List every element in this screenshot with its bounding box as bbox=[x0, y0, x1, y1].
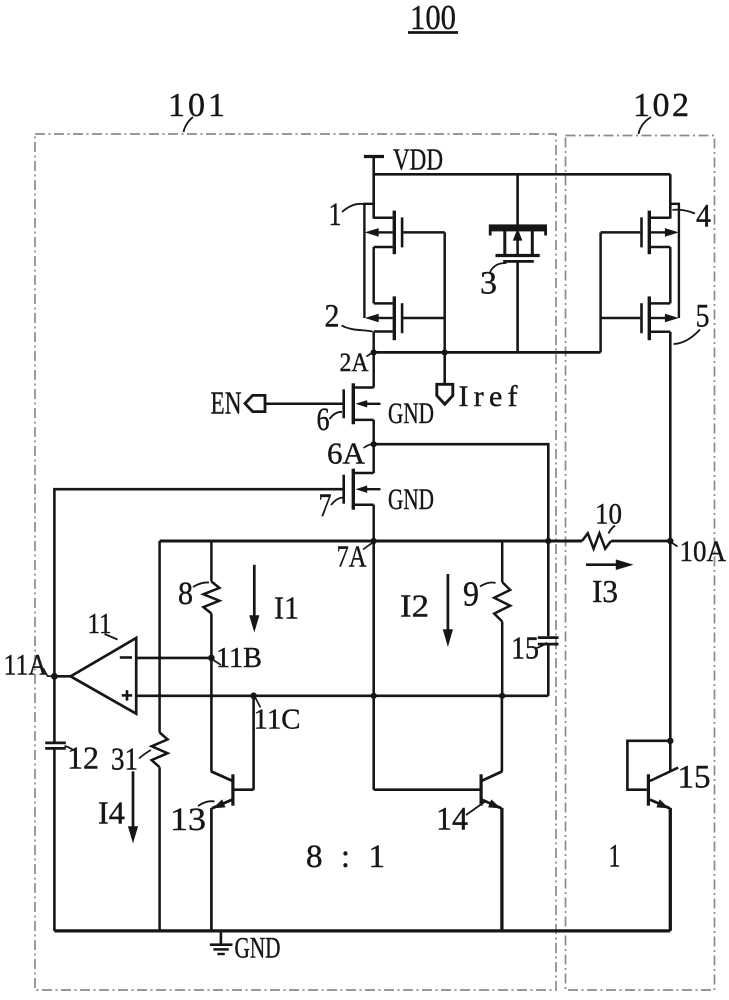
svg-text:8 : 1: 8 : 1 bbox=[306, 839, 385, 875]
wire VDD right drop bbox=[669, 174, 672, 218]
I1 current arrow bbox=[249, 565, 299, 633]
svg-text:13: 13 bbox=[170, 802, 206, 838]
wire VDD rail bbox=[374, 173, 671, 176]
svg-text:11B: 11B bbox=[216, 642, 262, 674]
svg-text:VDD: VDD bbox=[393, 142, 443, 177]
svg-text:12: 12 bbox=[67, 740, 99, 776]
wire left column to cap 12 bbox=[53, 676, 56, 742]
svg-text:6: 6 bbox=[317, 402, 330, 438]
svg-text:11C: 11C bbox=[254, 704, 301, 736]
Iref terminal bbox=[437, 352, 518, 413]
svg-text:3: 3 bbox=[480, 266, 497, 302]
capacitor 15 bbox=[538, 541, 559, 696]
wire plus input rail bbox=[136, 694, 548, 697]
transistor 1 (PMOS) bbox=[365, 211, 445, 255]
label 14 bbox=[436, 801, 487, 838]
EN terminal bbox=[211, 385, 266, 421]
label 5 bbox=[674, 299, 710, 345]
crossing dot plus row left bbox=[158, 694, 162, 698]
resistor 9 bbox=[494, 541, 510, 696]
svg-text:GND: GND bbox=[235, 932, 281, 965]
wire drain1-source2 bbox=[372, 247, 375, 303]
svg-text:101: 101 bbox=[168, 87, 225, 124]
I4 current arrow bbox=[98, 771, 138, 843]
label 1 bbox=[329, 197, 366, 233]
op-amp 11 bbox=[71, 638, 137, 714]
node 11A bbox=[4, 649, 58, 682]
wire I4 branch column bbox=[158, 541, 161, 733]
junction dot I2 branch on plus rail bbox=[371, 693, 377, 699]
node 10A bbox=[667, 535, 726, 568]
transistor 5 (PMOS mirrored) bbox=[601, 296, 679, 340]
label 101 bbox=[168, 87, 225, 132]
svg-text:I4: I4 bbox=[98, 795, 125, 831]
svg-text:7: 7 bbox=[319, 488, 332, 524]
transistor 2 (PMOS) bbox=[365, 296, 445, 340]
wire drain2 to 2A bbox=[372, 332, 375, 353]
wire drain4-source5 bbox=[669, 247, 672, 303]
box 102 (dash-dot border) bbox=[566, 136, 715, 991]
svg-text:GND: GND bbox=[388, 483, 434, 516]
wire bottom ground rail bbox=[54, 929, 670, 932]
label 3 bbox=[480, 263, 507, 302]
transistor Q15 (BJT diode-connected) bbox=[627, 741, 678, 931]
title 100 bbox=[408, 0, 458, 37]
ground symbol bbox=[210, 931, 281, 965]
svg-text:EN: EN bbox=[211, 385, 242, 421]
I2 current arrow bbox=[400, 574, 453, 647]
node 11B bbox=[208, 642, 262, 674]
wire 6A loop right bbox=[374, 444, 549, 541]
wire left column to bottom rail bbox=[53, 748, 56, 931]
resistor 31 bbox=[152, 733, 168, 931]
svg-text:I1: I1 bbox=[274, 590, 299, 626]
label 31 bbox=[111, 741, 151, 777]
transistor 4 (PMOS mirrored) bbox=[601, 211, 679, 255]
junction dot R9 branch on plus rail bbox=[499, 693, 505, 699]
junction dot gate link bbox=[442, 349, 448, 355]
crossing dot minus row bbox=[158, 656, 162, 660]
svg-text:6A: 6A bbox=[327, 436, 366, 471]
svg-text:1: 1 bbox=[609, 839, 621, 875]
node 2A bbox=[340, 348, 377, 377]
svg-text:10A: 10A bbox=[680, 535, 727, 568]
svg-text:2A: 2A bbox=[340, 348, 369, 377]
label 2 bbox=[325, 299, 373, 335]
transistor Q14 (BJT) bbox=[374, 696, 503, 931]
label 9 bbox=[463, 575, 496, 614]
svg-text:4: 4 bbox=[696, 199, 711, 235]
label 7 bbox=[319, 488, 343, 524]
node 11C bbox=[250, 693, 300, 736]
svg-text:7A: 7A bbox=[337, 539, 367, 574]
transistor Q13 (BJT mirrored) bbox=[211, 614, 254, 931]
label 8 bbox=[178, 576, 209, 612]
svg-text:10: 10 bbox=[595, 498, 622, 531]
label 12 bbox=[65, 740, 100, 776]
wire gate link left bbox=[443, 232, 446, 352]
label 102 bbox=[633, 87, 689, 134]
node 6A bbox=[327, 436, 377, 471]
resistor 10 bbox=[582, 533, 670, 548]
svg-text:1: 1 bbox=[329, 197, 342, 233]
label 10 bbox=[595, 498, 622, 534]
resistor 8 bbox=[203, 541, 219, 614]
label 4 bbox=[673, 199, 712, 235]
svg-text:15: 15 bbox=[511, 630, 539, 666]
svg-text:8: 8 bbox=[178, 576, 193, 612]
svg-text:102: 102 bbox=[633, 87, 689, 124]
wire 2A to transistor 6 bbox=[372, 352, 375, 387]
wire bulk line left bbox=[364, 204, 373, 318]
wire bulk line right bbox=[670, 204, 679, 318]
wire op-amp output bbox=[54, 675, 70, 678]
I3 current arrow bbox=[586, 559, 634, 609]
VDD supply symbol bbox=[364, 142, 443, 219]
transistor 3 (MOS capacitor) bbox=[489, 174, 547, 352]
svg-text:I2: I2 bbox=[400, 588, 429, 624]
wire minus input row bbox=[136, 657, 211, 660]
wire node 7A rail bbox=[160, 540, 582, 543]
label 13 bbox=[170, 801, 215, 838]
wire gate 7 to left column bbox=[54, 489, 342, 676]
wire gate link right bbox=[599, 232, 602, 352]
junction dot 6A loop on 7A rail bbox=[545, 538, 551, 544]
label 6 bbox=[317, 402, 343, 438]
svg-text:5: 5 bbox=[696, 299, 710, 335]
label 15 capacitor bbox=[511, 630, 547, 666]
svg-text:GND: GND bbox=[388, 397, 434, 430]
wire source6 to 6A bbox=[372, 420, 375, 444]
svg-text:11A: 11A bbox=[4, 649, 48, 682]
node Q15 collector junction bbox=[667, 738, 673, 744]
wire EN to gate 6 bbox=[265, 402, 343, 405]
svg-text:I3: I3 bbox=[592, 573, 618, 609]
node 7A bbox=[337, 538, 377, 574]
capacitor 12 bbox=[45, 743, 66, 749]
wire node 2A rail bbox=[374, 351, 601, 354]
svg-text:14: 14 bbox=[436, 802, 468, 838]
transistor 7 (NMOS) bbox=[344, 469, 434, 516]
wire right branch 10A to Q15 bbox=[669, 332, 672, 741]
label 11 bbox=[88, 609, 118, 640]
wire I2 branch x373 bbox=[372, 541, 375, 790]
wire 6A to transistor 7 bbox=[372, 444, 375, 473]
svg-text:9: 9 bbox=[463, 575, 479, 614]
crossing dot plus row mid bbox=[209, 694, 213, 698]
svg-text:15: 15 bbox=[678, 760, 711, 796]
svg-text:2: 2 bbox=[325, 299, 340, 335]
transistor 6 (NMOS switch) bbox=[344, 383, 434, 430]
svg-text:Iref: Iref bbox=[459, 380, 518, 413]
box 101 (dash-dot border) bbox=[35, 134, 556, 990]
wire source7 to 7A bbox=[372, 505, 375, 541]
svg-text:31: 31 bbox=[111, 741, 138, 777]
